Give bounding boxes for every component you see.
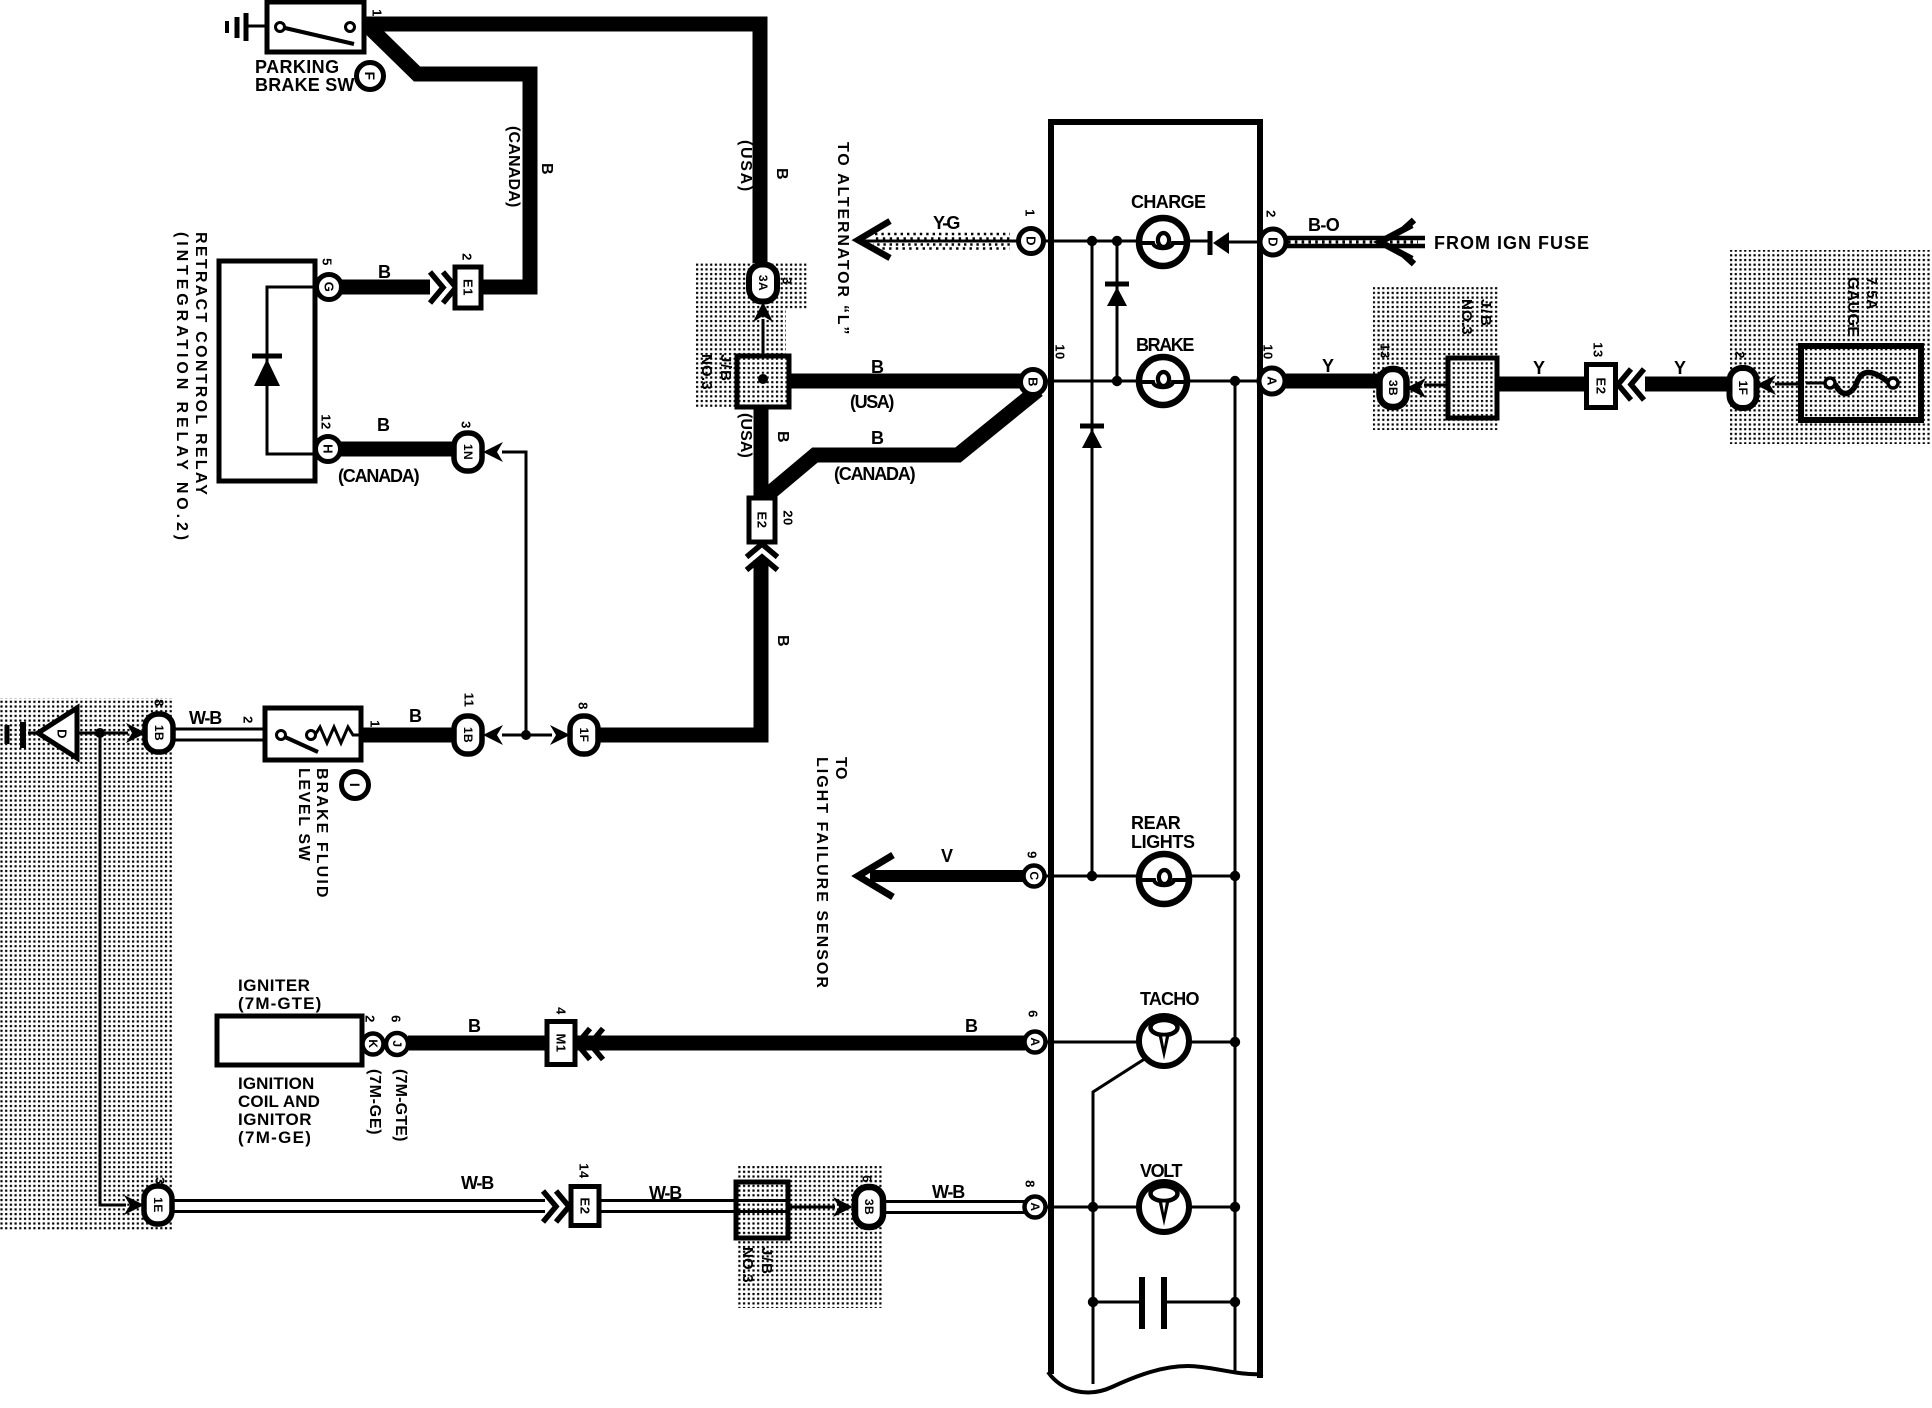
wire W-B 1E to E2 bbox=[172, 1201, 545, 1212]
label B canada vertical bbox=[538, 163, 555, 177]
label (CANADA) rotated bbox=[505, 126, 522, 208]
wire W-B 3B to meter 8A bbox=[883, 1202, 1025, 1213]
svg-text:E2: E2 bbox=[578, 1198, 593, 1215]
wire B (CANADA) from parking brake sw to E1 bbox=[370, 28, 530, 287]
connector 13 3B bbox=[1378, 343, 1407, 407]
label B (G wire) bbox=[378, 262, 393, 282]
wire W-B E2 to J/B bbox=[599, 1201, 737, 1212]
label B on CANADA wire bbox=[871, 428, 886, 448]
svg-text:D: D bbox=[1024, 236, 1039, 246]
gray region: J/B No.3 (right) bbox=[1373, 287, 1498, 430]
svg-text:8: 8 bbox=[152, 699, 167, 707]
svg-text:B: B bbox=[773, 168, 790, 182]
label B upper-right vertical bbox=[773, 168, 790, 182]
svg-text:F: F bbox=[362, 71, 378, 80]
label IGNITER (7M-GTE) bbox=[238, 976, 322, 1013]
junction dots rear lights line bbox=[1087, 871, 1240, 881]
arrow FROM IGN FUSE bbox=[1380, 220, 1414, 264]
label TO ALTERNATOR L bbox=[834, 142, 851, 336]
svg-text:(USA): (USA) bbox=[850, 392, 894, 412]
svg-text:J: J bbox=[390, 1040, 404, 1047]
svg-text:8: 8 bbox=[1023, 1180, 1038, 1188]
combination meter box outline bbox=[1048, 122, 1263, 1392]
svg-text:2: 2 bbox=[460, 253, 475, 261]
pin 6 J bbox=[386, 1015, 408, 1055]
pin 2 K bbox=[363, 1015, 384, 1054]
svg-text:13: 13 bbox=[1591, 342, 1606, 357]
svg-text:1B: 1B bbox=[152, 725, 166, 741]
svg-text:3: 3 bbox=[459, 421, 474, 429]
svg-text:CHARGE: CHARGE bbox=[1131, 192, 1206, 212]
chevrons after M1 bbox=[577, 1029, 603, 1060]
ground symbol (parking brake sw) bbox=[227, 13, 268, 41]
svg-text:J/B: J/B bbox=[758, 1247, 775, 1276]
wire from 1N to brake-fluid junction bbox=[502, 452, 526, 735]
svg-text:LIGHTS: LIGHTS bbox=[1131, 832, 1195, 852]
label V bbox=[941, 846, 955, 866]
arrow into 11 1B bbox=[483, 725, 503, 745]
wire 1F to fuse bbox=[1775, 383, 1805, 386]
label W-B (left) bbox=[189, 708, 222, 728]
junction dots volt line bbox=[1088, 1202, 1240, 1212]
label Y (left) bbox=[1322, 356, 1336, 376]
ignition coil and ignitor box bbox=[217, 1016, 362, 1065]
arrow into 1B oval bbox=[126, 723, 146, 743]
svg-text:(7M-GTE): (7M-GTE) bbox=[392, 1069, 409, 1142]
wire Y-G to meter 1D bbox=[862, 234, 1019, 249]
capacitor bbox=[1093, 1277, 1235, 1329]
svg-text:IGNITER: IGNITER bbox=[238, 976, 310, 995]
svg-text:(CANADA): (CANADA) bbox=[834, 464, 916, 484]
svg-text:6: 6 bbox=[389, 1015, 404, 1023]
label (7M-GE) rotated bbox=[366, 1069, 383, 1135]
label J/B NO.3 (bottom) bbox=[739, 1247, 775, 1283]
label BRAKE FLUID LEVEL SW bbox=[295, 768, 330, 900]
svg-text:10: 10 bbox=[1053, 344, 1068, 359]
svg-text:Y: Y bbox=[1322, 356, 1336, 376]
svg-text:3B: 3B bbox=[1386, 380, 1400, 396]
svg-text:D: D bbox=[1266, 237, 1281, 247]
tacho gauge bbox=[1139, 1016, 1189, 1066]
arrow into 1N bbox=[483, 442, 503, 462]
svg-text:2: 2 bbox=[1733, 351, 1748, 359]
wire diode to 2D bbox=[1229, 241, 1259, 244]
brake fluid level switch bbox=[265, 708, 361, 760]
svg-text:B: B bbox=[538, 163, 555, 177]
svg-text:B: B bbox=[377, 415, 392, 435]
svg-text:14: 14 bbox=[577, 1163, 592, 1179]
svg-text:B: B bbox=[965, 1016, 980, 1036]
svg-text:REAR: REAR bbox=[1131, 813, 1181, 833]
label PARKING BRAKE SW bbox=[255, 57, 355, 95]
svg-text:FROM IGN FUSE: FROM IGN FUSE bbox=[1434, 233, 1590, 253]
svg-text:NO.3: NO.3 bbox=[739, 1247, 756, 1283]
chevrons before 14 E2 bbox=[543, 1191, 569, 1222]
connector 3 1E bbox=[144, 1177, 172, 1224]
wire B relay H to 1N (CANADA) bbox=[340, 442, 452, 457]
rear lights lamp bbox=[1139, 854, 1189, 904]
gray region: gauge fuse bbox=[1730, 250, 1930, 444]
label BRAKE bbox=[1136, 335, 1194, 355]
svg-text:9: 9 bbox=[1025, 851, 1040, 859]
label CHARGE bbox=[1131, 192, 1206, 212]
svg-text:2: 2 bbox=[241, 716, 256, 724]
svg-text:3A: 3A bbox=[756, 275, 770, 291]
svg-text:1: 1 bbox=[368, 720, 383, 728]
svg-text:W-B: W-B bbox=[932, 1182, 965, 1202]
svg-text:B: B bbox=[774, 635, 791, 649]
wire from ground to 1B bbox=[77, 732, 128, 735]
label (7M-GTE) rotated bbox=[392, 1069, 409, 1142]
chevrons below E2 (up) bbox=[747, 544, 778, 570]
connector code I bbox=[342, 772, 369, 799]
relay pin 12 H bbox=[316, 414, 341, 461]
gray region: J/B No.3 (center) bbox=[696, 263, 808, 407]
svg-text:Y: Y bbox=[1674, 358, 1688, 378]
svg-text:D: D bbox=[55, 729, 70, 739]
label TACHO bbox=[1140, 989, 1199, 1009]
ground branch wire down to 1E bbox=[100, 736, 126, 1205]
chevrons after 13 E2 bbox=[1618, 369, 1644, 400]
wire 3B to J/B box bbox=[1424, 384, 1450, 387]
svg-text:BRAKE FLUID: BRAKE FLUID bbox=[313, 768, 330, 900]
svg-text:1N: 1N bbox=[461, 444, 475, 460]
label B on USA wire bbox=[871, 357, 886, 377]
pin 1 label (brake fluid sw) bbox=[368, 720, 383, 728]
label Y (right) bbox=[1674, 358, 1688, 378]
charge lamp row wire bbox=[1044, 240, 1208, 243]
volt gauge bbox=[1139, 1182, 1189, 1232]
wire B (CANADA) branch bbox=[765, 390, 1038, 497]
J/B No.3 connector box (right) bbox=[1448, 358, 1497, 418]
connector 13 E2 bbox=[1587, 342, 1616, 407]
svg-text:11: 11 bbox=[462, 693, 477, 708]
svg-text:20: 20 bbox=[781, 510, 796, 525]
junction dot ground branch bbox=[95, 728, 105, 738]
pin 2 label (brake fluid sw) bbox=[241, 716, 256, 724]
internal vertical v2 with diode bbox=[1080, 241, 1104, 877]
svg-text:NO.3: NO.3 bbox=[1458, 299, 1475, 335]
svg-text:(7M-GE): (7M-GE) bbox=[366, 1069, 383, 1135]
wire B-O from ign fuse bbox=[1286, 238, 1425, 246]
wire V to meter 9C bbox=[870, 870, 1024, 882]
label J/B NO.3 (center) bbox=[698, 354, 734, 390]
svg-text:K: K bbox=[366, 1039, 380, 1048]
label B (igniter wire right) bbox=[965, 1016, 980, 1036]
label 7.5A GAUGE bbox=[1844, 277, 1879, 337]
label B (H wire) bbox=[377, 415, 392, 435]
gray region: J/B No.3 (bottom) bbox=[736, 1166, 882, 1308]
svg-text:4: 4 bbox=[554, 1007, 569, 1015]
svg-text:(USA): (USA) bbox=[737, 140, 754, 193]
connector 11 1B bbox=[454, 693, 482, 754]
svg-text:6: 6 bbox=[1026, 1010, 1041, 1018]
label REAR LIGHTS bbox=[1131, 813, 1195, 852]
label B (igniter wire left) bbox=[468, 1016, 483, 1036]
meter pin 1 D bbox=[1019, 209, 1044, 253]
connector 8 1F bbox=[570, 702, 598, 754]
junction dots charge line bbox=[1087, 236, 1122, 246]
svg-text:BRAKE SW: BRAKE SW bbox=[255, 75, 355, 95]
connector 3 1N bbox=[454, 421, 482, 471]
connector 20 E2 bbox=[749, 498, 796, 542]
wire Y J/B to 13 E2 bbox=[1497, 377, 1589, 392]
meter pin 2 D bbox=[1260, 210, 1286, 255]
retract control relay box bbox=[219, 261, 315, 481]
junction dots brake line bbox=[1112, 376, 1240, 386]
wire B brake fluid sw to 1B bbox=[361, 728, 453, 743]
svg-text:(CANADA): (CANADA) bbox=[505, 126, 522, 208]
wire Y E2 to 1F bbox=[1645, 377, 1730, 392]
svg-text:10: 10 bbox=[1261, 344, 1276, 359]
svg-text:RETRACT CONTROL RELAY: RETRACT CONTROL RELAY bbox=[192, 232, 209, 497]
svg-text:W-B: W-B bbox=[461, 1173, 494, 1193]
svg-text:NO.3: NO.3 bbox=[698, 354, 715, 390]
internal vertical v3 right bus bbox=[1234, 381, 1237, 1302]
label TO LIGHT FAILURE SENSOR bbox=[813, 757, 849, 990]
svg-text:COIL AND: COIL AND bbox=[238, 1092, 320, 1111]
label J/B NO.3 (right) bbox=[1458, 299, 1494, 335]
connector 4 M1 bbox=[547, 1007, 575, 1064]
svg-text:6: 6 bbox=[860, 1175, 875, 1183]
svg-text:(7M-GTE): (7M-GTE) bbox=[238, 994, 322, 1013]
arrow into 13 3B bbox=[1406, 378, 1426, 398]
label B right vertical lower bbox=[774, 635, 791, 649]
brake lamp row wire bbox=[1046, 380, 1259, 383]
wire 1B junction to 1F bbox=[502, 734, 552, 737]
wire Y meter 10A to 3B bbox=[1285, 374, 1383, 389]
charge diode bbox=[1210, 231, 1229, 255]
internal vertical left lower bbox=[1092, 1207, 1095, 1384]
wire inside J/B to 3A bbox=[762, 319, 765, 379]
svg-text:VOLT: VOLT bbox=[1140, 1161, 1182, 1181]
label FROM IGN FUSE bbox=[1434, 233, 1590, 253]
svg-text:BRAKE: BRAKE bbox=[1136, 335, 1194, 355]
svg-text:1F: 1F bbox=[577, 727, 591, 742]
fuse 7.5A GAUGE box bbox=[1801, 346, 1921, 420]
svg-text:V: V bbox=[941, 846, 955, 866]
junction dot inside J/B bbox=[758, 374, 768, 384]
svg-text:2: 2 bbox=[363, 1015, 378, 1023]
label Y (mid) bbox=[1533, 358, 1547, 378]
junction dot mid bbox=[521, 730, 531, 740]
label (USA) upper bbox=[737, 140, 754, 193]
arrow into 2 1F bbox=[1756, 375, 1776, 395]
parking brake switch bbox=[267, 2, 364, 52]
connector 2 E1 bbox=[455, 253, 481, 308]
svg-text:TO: TO bbox=[832, 757, 849, 780]
svg-text:A: A bbox=[1028, 1202, 1042, 1211]
pin 1 label (parking brake sw) bbox=[370, 9, 385, 17]
charge lamp bbox=[1139, 218, 1187, 266]
tacho row wire bbox=[1045, 1041, 1235, 1044]
label (USA) horizontal bbox=[850, 392, 894, 412]
svg-text:E2: E2 bbox=[755, 512, 770, 529]
svg-text:B: B bbox=[468, 1016, 483, 1036]
svg-text:PARKING: PARKING bbox=[255, 57, 339, 77]
svg-text:B-O: B-O bbox=[1308, 215, 1340, 235]
arrow up into 3A bbox=[753, 302, 773, 322]
connector code F bbox=[357, 63, 384, 90]
relay internal diode bbox=[252, 356, 282, 386]
label IGNITION COIL AND IGNITOR (7M-GE) bbox=[238, 1074, 320, 1147]
svg-text:(CANADA): (CANADA) bbox=[338, 466, 420, 486]
svg-text:A: A bbox=[1265, 376, 1280, 386]
svg-text:B: B bbox=[378, 262, 393, 282]
wire B (USA) J/B to meter 10B bbox=[789, 374, 1022, 389]
label B lower vertical bbox=[774, 431, 791, 445]
svg-text:IGNITOR: IGNITOR bbox=[238, 1110, 312, 1129]
label B (switch wire) bbox=[409, 706, 424, 726]
svg-text:J/B: J/B bbox=[717, 354, 734, 383]
relay pin 5 G bbox=[317, 258, 342, 299]
meter pin 8 A bbox=[1023, 1180, 1046, 1217]
label (CANADA) horizontal bbox=[338, 466, 420, 486]
svg-text:(INTEGRATION RELAY NO.2): (INTEGRATION RELAY NO.2) bbox=[173, 232, 190, 544]
svg-text:J/B: J/B bbox=[1477, 299, 1494, 328]
svg-text:(7M-GE): (7M-GE) bbox=[238, 1128, 312, 1147]
connector 8 1B bbox=[145, 699, 173, 752]
svg-text:Y-G: Y-G bbox=[933, 213, 959, 233]
svg-text:B: B bbox=[871, 357, 886, 377]
svg-text:1: 1 bbox=[370, 9, 385, 17]
svg-text:1B: 1B bbox=[461, 727, 475, 743]
svg-text:I: I bbox=[347, 783, 363, 787]
wire B igniter to meter 6A bbox=[408, 1036, 1025, 1051]
svg-text:GAUGE: GAUGE bbox=[1844, 277, 1861, 337]
connector 2 1F bbox=[1730, 351, 1757, 408]
rear lights row wire bbox=[1044, 875, 1235, 878]
wire B (USA) lower vertical J/B to E2 bbox=[754, 405, 769, 500]
wire J/B to 3B bbox=[788, 1206, 835, 1209]
label W-B (bottom right) bbox=[932, 1182, 965, 1202]
svg-text:A: A bbox=[1028, 1037, 1042, 1046]
svg-text:Y: Y bbox=[1533, 358, 1547, 378]
svg-text:7.5A: 7.5A bbox=[1863, 277, 1879, 310]
svg-text:2: 2 bbox=[1264, 210, 1279, 218]
J/B No.3 connector box (bottom) bbox=[736, 1182, 788, 1238]
svg-text:1F: 1F bbox=[1736, 380, 1750, 395]
wire B relay G to E1 bbox=[341, 280, 430, 295]
svg-text:3B: 3B bbox=[862, 1199, 876, 1215]
meter pin 6 A bbox=[1025, 1010, 1046, 1052]
svg-text:C: C bbox=[1027, 871, 1041, 880]
wire W-B through J/B box bbox=[599, 1201, 786, 1212]
junction dot tacho line bbox=[1230, 1037, 1240, 1047]
svg-text:IGNITION: IGNITION bbox=[238, 1074, 314, 1093]
svg-text:E2: E2 bbox=[1594, 378, 1609, 395]
svg-text:TO ALTERNATOR “L”: TO ALTERNATOR “L” bbox=[834, 142, 851, 336]
svg-text:M1: M1 bbox=[554, 1033, 569, 1052]
meter pin 10 A bbox=[1259, 344, 1285, 394]
label (CANADA) horizontal mid bbox=[834, 464, 916, 484]
arrow into 1E bbox=[124, 1195, 144, 1215]
svg-text:(USA): (USA) bbox=[737, 413, 754, 458]
ground point D triangle bbox=[7, 708, 77, 758]
svg-text:H: H bbox=[321, 444, 336, 454]
svg-text:3: 3 bbox=[780, 277, 795, 285]
svg-text:3: 3 bbox=[153, 1177, 168, 1185]
arrow TO LIGHT FAILURE SENSOR bbox=[858, 855, 893, 897]
svg-text:LIGHT FAILURE SENSOR: LIGHT FAILURE SENSOR bbox=[813, 757, 830, 990]
svg-text:1E: 1E bbox=[151, 1197, 165, 1213]
svg-text:TACHO: TACHO bbox=[1140, 989, 1199, 1009]
svg-text:B: B bbox=[871, 428, 886, 448]
J/B No.3 connector box (center) bbox=[737, 356, 789, 407]
svg-text:G: G bbox=[322, 282, 337, 293]
arrow into 6 3B bbox=[833, 1197, 853, 1217]
connector 6 3B bbox=[855, 1175, 883, 1227]
svg-text:B: B bbox=[774, 431, 791, 445]
svg-text:12: 12 bbox=[319, 414, 334, 429]
relay internal wire bbox=[267, 287, 313, 454]
svg-text:W-B: W-B bbox=[189, 708, 222, 728]
svg-text:1: 1 bbox=[1023, 209, 1038, 217]
connector chevrons to E1 bbox=[430, 272, 456, 303]
label (USA) lower rotated bbox=[737, 413, 754, 458]
tacho branch diagonal bbox=[1093, 1058, 1146, 1207]
internal vertical right lower bbox=[1234, 1302, 1237, 1372]
junction dots capacitor line bbox=[1088, 1297, 1240, 1307]
arrow into 1F bbox=[550, 725, 570, 745]
svg-text:5: 5 bbox=[320, 258, 335, 266]
svg-text:B: B bbox=[1026, 377, 1041, 387]
arrow TO ALTERNATOR L bbox=[858, 221, 890, 258]
volt row wire bbox=[1045, 1206, 1235, 1209]
wire B from 1F up to E2 bbox=[598, 560, 761, 735]
label RETRACT CONTROL RELAY (INTEGRATION RELAY NO.2) bbox=[173, 232, 209, 544]
wire B (USA) from parking brake sw to junction block bbox=[364, 24, 760, 263]
connector 3 3A bbox=[749, 265, 795, 302]
svg-text:8: 8 bbox=[576, 702, 591, 710]
wire W-B to brake fluid sw bbox=[173, 729, 266, 740]
meter pin 10 B bbox=[1021, 344, 1068, 394]
svg-text:13: 13 bbox=[1378, 343, 1393, 358]
svg-text:E1: E1 bbox=[461, 279, 476, 296]
meter pin 9 C bbox=[1024, 851, 1045, 886]
brake lamp bbox=[1139, 357, 1187, 405]
label W-B (bottom left) bbox=[461, 1173, 494, 1193]
label VOLT bbox=[1140, 1161, 1182, 1181]
internal vertical v1 with diode bbox=[1105, 241, 1129, 381]
label Y-G bbox=[933, 213, 959, 233]
gray region: left ground harness area bbox=[0, 698, 174, 1231]
label W-B (bottom mid) bbox=[649, 1183, 682, 1203]
label B-O bbox=[1308, 215, 1340, 235]
svg-text:LEVEL SW: LEVEL SW bbox=[295, 768, 312, 862]
svg-text:B: B bbox=[409, 706, 424, 726]
connector 14 E2 bbox=[571, 1163, 599, 1225]
